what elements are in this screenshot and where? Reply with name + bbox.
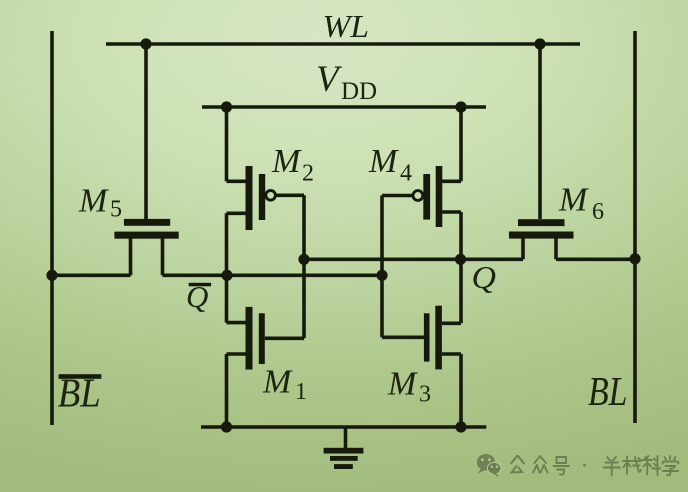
wire M5 drain leg right	[161, 236, 165, 275]
watermark logo chat bubble small	[487, 462, 501, 477]
svg-text:BL: BL	[58, 370, 101, 416]
wire gate vertical M4-M3 to Qbar	[380, 196, 384, 338]
wire Q node horizontal	[304, 257, 523, 261]
transistor M1 gate bar	[259, 313, 265, 364]
watermark logo chat bubble large	[477, 454, 495, 474]
wire VDD horizontal supply rail	[202, 105, 486, 109]
wire WL horizontal word line	[106, 42, 580, 46]
wire M1 drain stub	[227, 321, 247, 325]
svg-text:M: M	[78, 183, 109, 220]
svg-text:Q: Q	[186, 279, 208, 314]
svg-text:3: 3	[419, 382, 431, 408]
svg-text:6: 6	[592, 199, 604, 225]
svg-text:WL: WL	[323, 8, 370, 44]
wire VDD drop to M4	[459, 107, 463, 181]
wire M1 source to ground rail	[225, 354, 229, 427]
watermark text zhong	[533, 456, 548, 473]
junction dot Q node	[455, 254, 466, 265]
watermark text ke	[643, 456, 661, 475]
wire VDD drop to M2	[225, 107, 229, 181]
wire M3 gate lead	[382, 335, 424, 339]
wire M1 gate lead	[265, 336, 304, 340]
wire M6 right leg	[554, 236, 558, 259]
ground bar 2	[330, 456, 358, 461]
junction dot WL-M6	[534, 38, 545, 49]
junction dot VDD-M2	[221, 101, 232, 112]
transistor M4 gate bar	[423, 174, 430, 220]
watermark text ban	[604, 457, 621, 476]
wire M3 source stub	[442, 352, 461, 356]
wire M3 drain stub	[442, 321, 461, 325]
wire BL right bit line vertical	[633, 31, 637, 423]
transistor M2 channel bar	[246, 166, 253, 230]
junction dot WL-M5	[140, 38, 151, 49]
wire BLbar to M5	[52, 273, 131, 277]
junction dot Qbar node	[221, 270, 232, 281]
wire M6 to BL	[556, 257, 635, 261]
bubble of PMOS M4	[413, 191, 423, 201]
ground bar 3	[334, 464, 353, 469]
wire gate vertical M2-M1 to Q	[302, 195, 306, 338]
junction dot Qbar-M3M4 gates	[376, 270, 387, 281]
wire ground rail	[201, 425, 486, 429]
svg-text:M: M	[558, 182, 589, 219]
wire M5 source leg left	[129, 236, 133, 275]
wire M3 source to ground rail	[459, 354, 463, 427]
transistor M2 gate bar	[259, 174, 265, 220]
wire M4 drain to Q to M3 drain	[459, 212, 463, 323]
transistor M3 gate bar	[424, 313, 430, 361]
svg-text:2: 2	[302, 161, 314, 187]
wire BLbar left bit line vertical	[50, 31, 54, 425]
transistor M6 pass gate bar	[518, 219, 565, 226]
wire M6 left leg	[521, 236, 525, 259]
svg-text:4: 4	[400, 161, 412, 187]
watermark text xue	[663, 456, 679, 475]
wire ground stem	[344, 427, 348, 449]
junction dot VDD-M4	[455, 101, 466, 112]
wire M2 drain to Qbar to M1 drain	[225, 213, 229, 322]
junction dot Q-M1M2 gates	[298, 254, 309, 265]
wire M4 source stub	[442, 180, 461, 184]
overbar of BLbar label	[59, 374, 102, 379]
transistor M3 channel bar	[435, 306, 442, 370]
watermark middle dot	[583, 464, 586, 467]
wire Qbar node horizontal	[163, 273, 383, 277]
junction dot rail-M3	[455, 421, 466, 432]
wire M2 source stub	[227, 180, 247, 184]
junction dot M6-BL	[629, 253, 640, 264]
svg-text:BL: BL	[588, 368, 628, 414]
svg-text:M: M	[262, 364, 293, 401]
transistor M1 channel bar	[246, 307, 253, 370]
watermark text gong	[511, 456, 679, 476]
svg-text:M: M	[387, 366, 418, 403]
svg-text:V: V	[316, 59, 343, 100]
wire M4 gate lead	[382, 194, 413, 198]
svg-text:Q: Q	[472, 259, 497, 295]
bubble of PMOS M2	[266, 191, 276, 201]
watermark text hao	[554, 457, 570, 475]
watermark logo bubble eyes	[481, 458, 491, 461]
wire M4 drain stub	[442, 210, 461, 214]
transistor M5 pass gate bar	[124, 219, 170, 226]
junction dot rail-M1	[221, 421, 232, 432]
wire M2 gate lead	[275, 194, 304, 198]
ground bar 1	[324, 448, 364, 454]
wire M2 drain stub	[227, 212, 247, 216]
svg-text:M: M	[271, 143, 302, 180]
overbar of Qbar label	[189, 283, 211, 287]
svg-text:1: 1	[295, 379, 307, 405]
transistor M6 channel bar	[509, 232, 574, 239]
wire M1 source stub	[227, 352, 247, 356]
junction dot BLbar-M5	[46, 270, 57, 281]
wire M6 gate from WL	[538, 44, 542, 219]
transistor M5 channel bar	[114, 232, 178, 239]
svg-text:5: 5	[110, 197, 122, 223]
wire M5 gate from WL	[144, 44, 148, 219]
transistor M4 channel bar	[436, 166, 443, 227]
watermark text zhan	[623, 457, 641, 475]
svg-text:M: M	[368, 143, 399, 180]
svg-text:DD: DD	[341, 78, 377, 105]
